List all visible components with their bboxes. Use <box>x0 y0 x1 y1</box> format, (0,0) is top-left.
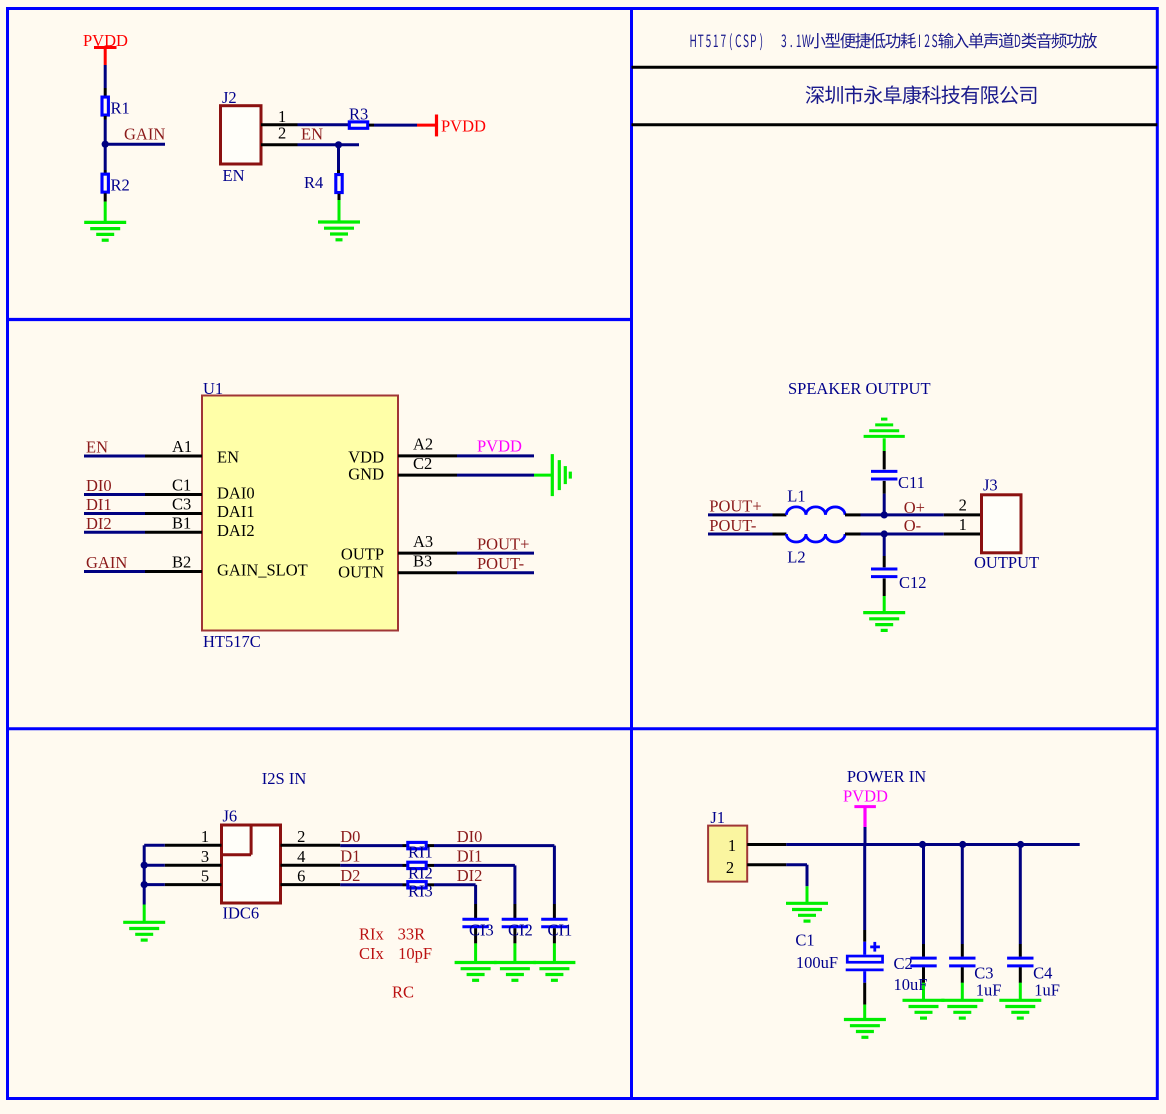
svg-text:J1: J1 <box>710 808 725 827</box>
svg-text:RI2: RI2 <box>408 864 433 883</box>
svg-text:O+: O+ <box>904 498 925 517</box>
svg-text:CI2: CI2 <box>508 921 533 940</box>
svg-text:DAI0: DAI0 <box>217 484 255 503</box>
svg-text:CI3: CI3 <box>469 921 494 940</box>
svg-text:6: 6 <box>297 866 305 885</box>
svg-text:B2: B2 <box>172 553 191 572</box>
svg-text:OUTN: OUTN <box>338 563 384 582</box>
svg-text:RIx: RIx <box>359 925 385 944</box>
svg-text:J3: J3 <box>983 475 998 494</box>
svg-text:GAIN: GAIN <box>86 553 127 572</box>
svg-text:D0: D0 <box>340 827 360 846</box>
svg-text:VDD: VDD <box>348 447 384 466</box>
svg-text:B1: B1 <box>172 514 191 533</box>
svg-text:GND: GND <box>348 465 384 484</box>
svg-text:C12: C12 <box>899 573 927 592</box>
svg-text:5: 5 <box>201 866 209 885</box>
svg-text:CIx: CIx <box>359 944 385 963</box>
svg-text:C1: C1 <box>795 931 814 950</box>
svg-text:2: 2 <box>726 858 734 877</box>
svg-text:2: 2 <box>278 124 286 143</box>
svg-text:C2: C2 <box>413 454 432 473</box>
svg-text:PVDD: PVDD <box>441 117 486 136</box>
svg-text:EN: EN <box>301 125 323 144</box>
svg-text:DI0: DI0 <box>457 827 483 846</box>
svg-text:2: 2 <box>959 495 967 514</box>
svg-text:PVDD: PVDD <box>843 787 888 806</box>
svg-text:SPEAKER OUTPUT: SPEAKER OUTPUT <box>788 379 931 398</box>
svg-text:100uF: 100uF <box>796 953 838 972</box>
svg-text:OUTP: OUTP <box>341 545 384 564</box>
svg-text:GAIN: GAIN <box>124 125 165 144</box>
svg-text:DI1: DI1 <box>457 847 483 866</box>
svg-text:HT517C: HT517C <box>203 632 261 651</box>
svg-text:EN: EN <box>223 166 245 185</box>
svg-text:POUT+: POUT+ <box>709 497 761 516</box>
svg-text:RI3: RI3 <box>408 881 433 900</box>
svg-text:J2: J2 <box>222 88 237 107</box>
svg-text:33R: 33R <box>398 925 426 944</box>
svg-text:IDC6: IDC6 <box>223 904 260 923</box>
svg-text:R4: R4 <box>304 173 323 192</box>
svg-text:OUTPUT: OUTPUT <box>974 553 1039 572</box>
svg-text:1: 1 <box>959 515 967 534</box>
svg-text:1uF: 1uF <box>1034 981 1060 1000</box>
svg-text:4: 4 <box>297 847 305 866</box>
svg-text:A2: A2 <box>413 435 433 454</box>
svg-text:L1: L1 <box>787 487 805 506</box>
svg-text:R1: R1 <box>111 99 130 118</box>
svg-text:POWER IN: POWER IN <box>847 767 926 786</box>
svg-text:10uF: 10uF <box>894 975 928 994</box>
svg-text:C2: C2 <box>894 954 913 973</box>
svg-text:B3: B3 <box>413 551 432 570</box>
svg-text:3: 3 <box>201 847 209 866</box>
svg-text:RI1: RI1 <box>408 842 433 861</box>
svg-text:O-: O- <box>904 516 921 535</box>
svg-text:DAI1: DAI1 <box>217 502 255 521</box>
svg-text:DAI2: DAI2 <box>217 521 255 540</box>
svg-text:L2: L2 <box>787 548 805 567</box>
svg-text:GAIN_SLOT: GAIN_SLOT <box>217 560 308 579</box>
svg-text:C3: C3 <box>172 495 191 514</box>
svg-text:R2: R2 <box>111 176 130 195</box>
svg-text:A1: A1 <box>172 437 192 456</box>
svg-text:EN: EN <box>86 438 108 457</box>
svg-text:PVDD: PVDD <box>477 436 522 455</box>
svg-text:RC: RC <box>392 983 414 1002</box>
svg-text:DI2: DI2 <box>457 866 483 885</box>
svg-text:C11: C11 <box>898 473 925 492</box>
svg-text:CI1: CI1 <box>548 921 573 940</box>
svg-text:EN: EN <box>217 447 239 466</box>
svg-text:A3: A3 <box>413 532 433 551</box>
svg-text:POUT-: POUT- <box>477 554 524 573</box>
svg-text:DI0: DI0 <box>86 476 112 495</box>
svg-text:I2S IN: I2S IN <box>262 769 307 788</box>
svg-text:1: 1 <box>201 827 209 846</box>
svg-text:1uF: 1uF <box>976 981 1002 1000</box>
svg-text:POUT-: POUT- <box>709 516 756 535</box>
svg-text:D1: D1 <box>340 847 360 866</box>
svg-text:D2: D2 <box>340 866 360 885</box>
svg-text:C1: C1 <box>172 476 191 495</box>
svg-text:J6: J6 <box>223 807 238 826</box>
svg-text:R3: R3 <box>349 105 368 124</box>
svg-text:U1: U1 <box>203 379 223 398</box>
svg-text:2: 2 <box>297 827 305 846</box>
svg-text:DI1: DI1 <box>86 495 112 514</box>
svg-text:10pF: 10pF <box>398 944 432 963</box>
svg-text:DI2: DI2 <box>86 514 112 533</box>
svg-text:POUT+: POUT+ <box>477 534 529 553</box>
svg-text:1: 1 <box>728 836 736 855</box>
